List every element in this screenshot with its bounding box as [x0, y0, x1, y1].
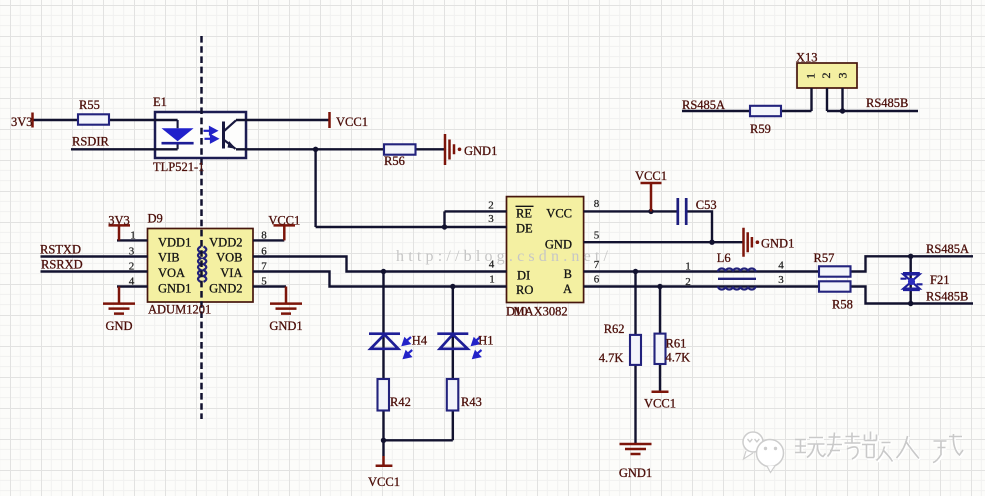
svg-text:A: A — [563, 282, 572, 296]
svg-text:E1: E1 — [153, 95, 167, 109]
svg-text:http://blog.csdn.net/: http://blog.csdn.net/ — [396, 248, 612, 265]
svg-text:8: 8 — [594, 198, 600, 210]
svg-text:GND2: GND2 — [209, 282, 242, 296]
svg-text:1: 1 — [685, 261, 691, 273]
svg-text:VCC: VCC — [546, 207, 572, 221]
svg-text:H1: H1 — [478, 333, 493, 347]
svg-text:L6: L6 — [717, 251, 731, 265]
svg-text:4.7K: 4.7K — [599, 351, 624, 365]
svg-text:GND1: GND1 — [464, 144, 497, 158]
svg-text:VDD2: VDD2 — [209, 235, 242, 249]
svg-text:1: 1 — [489, 274, 495, 286]
svg-text:3V3: 3V3 — [11, 115, 33, 129]
svg-text:VOA: VOA — [158, 266, 185, 280]
svg-text:R56: R56 — [384, 154, 405, 168]
svg-text:GND1: GND1 — [619, 466, 652, 480]
svg-text:R57: R57 — [814, 251, 835, 265]
svg-text:MAX3082: MAX3082 — [514, 305, 568, 319]
svg-text:R42: R42 — [390, 395, 411, 409]
svg-text:RSRXD: RSRXD — [41, 258, 83, 272]
svg-text:X13: X13 — [796, 51, 818, 65]
svg-text:7: 7 — [594, 259, 600, 271]
svg-text:RS485A: RS485A — [926, 242, 969, 256]
svg-text:5: 5 — [261, 276, 267, 288]
svg-text:RS485B: RS485B — [866, 96, 908, 110]
svg-text:GND1: GND1 — [761, 237, 794, 251]
svg-text:TLP521-1: TLP521-1 — [153, 160, 204, 174]
svg-text:R59: R59 — [750, 122, 771, 136]
svg-text:3V3: 3V3 — [108, 214, 130, 228]
svg-text:RO: RO — [516, 283, 533, 297]
svg-text:VCC1: VCC1 — [644, 397, 676, 411]
svg-text:8: 8 — [261, 230, 267, 242]
svg-text:2: 2 — [129, 261, 135, 273]
svg-text:3: 3 — [836, 73, 850, 79]
svg-text:H4: H4 — [412, 333, 428, 347]
svg-text:F21: F21 — [930, 273, 949, 287]
svg-text:R61: R61 — [666, 337, 687, 351]
svg-text:DE: DE — [516, 222, 533, 236]
svg-text:C53: C53 — [696, 198, 717, 212]
svg-text:5: 5 — [594, 230, 600, 242]
svg-text:RSDIR: RSDIR — [72, 135, 109, 149]
svg-text:RS485B: RS485B — [926, 290, 968, 304]
svg-text:4.7K: 4.7K — [666, 351, 691, 365]
svg-text:1: 1 — [804, 73, 818, 79]
svg-text:R58: R58 — [832, 298, 853, 312]
svg-text:3: 3 — [488, 213, 494, 225]
svg-text:6: 6 — [261, 246, 267, 258]
svg-text:RE: RE — [516, 207, 532, 221]
svg-text:VCC1: VCC1 — [368, 475, 400, 489]
svg-text:VDD1: VDD1 — [158, 235, 191, 249]
svg-text:GND: GND — [545, 238, 572, 252]
svg-text:6: 6 — [594, 274, 600, 286]
svg-text:VCC1: VCC1 — [268, 214, 300, 228]
svg-text:B: B — [564, 267, 572, 281]
svg-text:ADUM1201: ADUM1201 — [148, 303, 211, 317]
svg-text:1: 1 — [130, 230, 136, 242]
svg-text:D9: D9 — [148, 212, 163, 226]
svg-text:2: 2 — [685, 276, 691, 288]
svg-text:4: 4 — [489, 259, 495, 271]
svg-text:RSTXD: RSTXD — [40, 243, 81, 257]
svg-text:RS485A: RS485A — [682, 98, 725, 112]
svg-text:VIA: VIA — [220, 266, 242, 280]
svg-text:GND: GND — [105, 319, 132, 333]
svg-text:VIB: VIB — [158, 251, 180, 265]
svg-text:3: 3 — [129, 246, 135, 258]
svg-text:R55: R55 — [79, 98, 100, 112]
svg-text:R43: R43 — [461, 395, 482, 409]
svg-text:7: 7 — [261, 261, 267, 273]
svg-text:2: 2 — [488, 200, 494, 212]
svg-text:2: 2 — [819, 73, 833, 79]
svg-text:4: 4 — [778, 260, 784, 272]
svg-text:DI: DI — [517, 269, 530, 283]
svg-text:VOB: VOB — [216, 251, 242, 265]
svg-text:3: 3 — [778, 274, 784, 286]
svg-text:4: 4 — [129, 276, 135, 288]
svg-text:VCC1: VCC1 — [635, 169, 667, 183]
svg-text:R62: R62 — [604, 322, 625, 336]
svg-text:VCC1: VCC1 — [336, 115, 368, 129]
svg-text:GND1: GND1 — [269, 319, 302, 333]
svg-text:GND1: GND1 — [158, 282, 191, 296]
